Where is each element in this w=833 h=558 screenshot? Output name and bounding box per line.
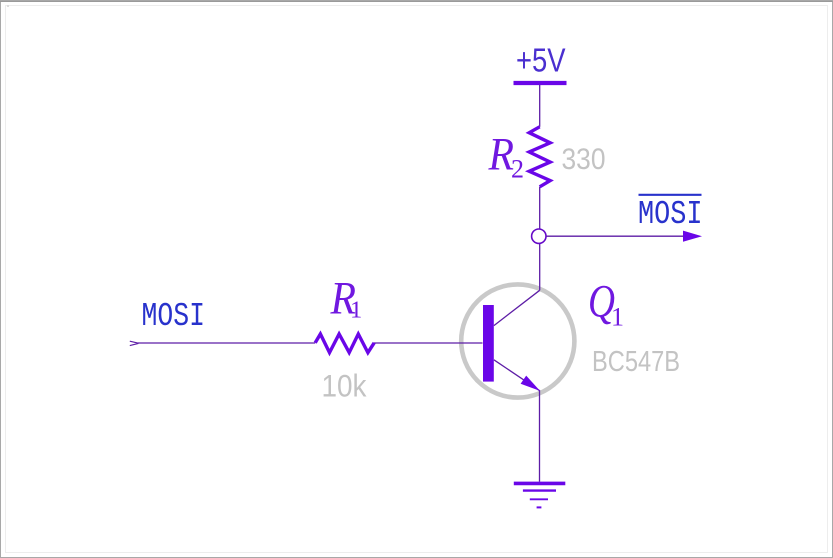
svg-text:330: 330: [562, 143, 606, 176]
svg-text:10k: 10k: [322, 368, 367, 404]
svg-text:1: 1: [350, 297, 362, 324]
svg-text:BC547B: BC547B: [592, 346, 680, 378]
svg-text:MOSI: MOSI: [142, 298, 206, 336]
svg-text:+5V: +5V: [516, 42, 566, 79]
svg-text:1: 1: [611, 303, 624, 332]
svg-text:2: 2: [511, 155, 524, 184]
svg-text:MOSI: MOSI: [638, 196, 703, 234]
